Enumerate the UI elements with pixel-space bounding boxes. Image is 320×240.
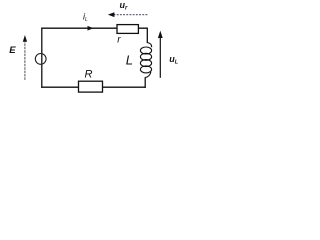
wire: bottom branch bbox=[41, 86, 146, 88]
svg-text:L: L bbox=[126, 53, 133, 68]
inductor L coil bbox=[140, 43, 151, 78]
svg-text:ur: ur bbox=[120, 0, 129, 12]
voltage arrow u_L shaft bbox=[159, 36, 161, 78]
svg-text:R: R bbox=[85, 69, 93, 81]
wire: left vertical branch bbox=[41, 28, 43, 88]
voltage arrow u_r dashed shaft bbox=[114, 14, 149, 16]
EMF arrow E shaft bbox=[24, 40, 26, 80]
svg-text:iL: iL bbox=[83, 12, 88, 24]
resistor r bbox=[117, 25, 138, 34]
EMF arrow E head bbox=[23, 35, 27, 42]
wire: lower-right segment bbox=[144, 77, 146, 88]
voltage source circle bbox=[35, 54, 46, 65]
svg-text:E: E bbox=[9, 45, 16, 56]
wire: top-right segment bbox=[139, 28, 147, 43]
svg-text:uL: uL bbox=[169, 54, 179, 66]
current arrowhead iL bbox=[88, 26, 94, 31]
voltage arrow u_L head bbox=[158, 31, 163, 38]
wire: top branch bbox=[41, 27, 118, 29]
resistor R bbox=[79, 81, 103, 92]
voltage arrow u_r head bbox=[108, 12, 115, 17]
svg-text:r: r bbox=[117, 34, 121, 45]
